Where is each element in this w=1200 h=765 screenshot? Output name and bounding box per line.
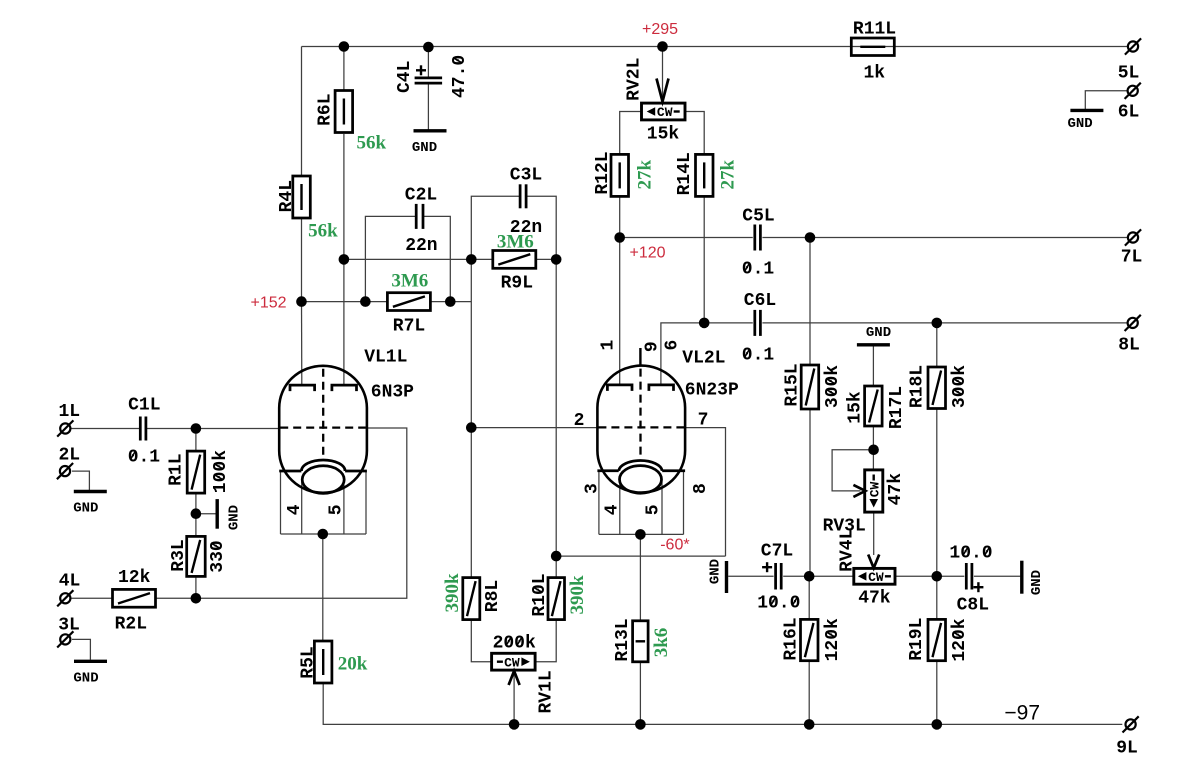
svg-text:2L: 2L xyxy=(58,446,80,466)
svg-text:0.1: 0.1 xyxy=(742,346,775,366)
svg-text:120k: 120k xyxy=(823,618,843,661)
svg-text:GND: GND xyxy=(1029,570,1045,595)
svg-text:GND: GND xyxy=(73,501,98,517)
svg-text:R17L: R17L xyxy=(887,386,907,429)
svg-text:120k: 120k xyxy=(950,618,970,661)
svg-text:390k: 390k xyxy=(567,575,588,615)
svg-text:4L: 4L xyxy=(59,572,81,592)
svg-text:9: 9 xyxy=(642,341,662,352)
svg-text:R11L: R11L xyxy=(853,20,896,40)
svg-text:CW: CW xyxy=(657,105,673,120)
svg-text:300k: 300k xyxy=(823,365,843,408)
svg-text:0.1: 0.1 xyxy=(128,448,161,468)
svg-text:C3L: C3L xyxy=(510,165,542,185)
svg-text:GND: GND xyxy=(412,140,437,156)
svg-text:VL2L: VL2L xyxy=(682,349,725,369)
svg-text:3L: 3L xyxy=(58,616,80,636)
svg-text:C7L: C7L xyxy=(761,542,793,562)
svg-text:C2L: C2L xyxy=(405,185,437,205)
svg-text:100k: 100k xyxy=(211,450,231,493)
svg-text:9L: 9L xyxy=(1116,739,1138,759)
svg-text:+152: +152 xyxy=(250,295,286,312)
svg-text:6N3P: 6N3P xyxy=(371,383,414,403)
svg-text:+120: +120 xyxy=(629,245,665,262)
svg-text:GND: GND xyxy=(73,671,98,687)
svg-text:1: 1 xyxy=(598,340,618,351)
svg-text:RV4L: RV4L xyxy=(837,529,857,572)
svg-text:8L: 8L xyxy=(1118,336,1140,356)
svg-text:1L: 1L xyxy=(58,402,80,422)
svg-text:R14L: R14L xyxy=(675,152,695,195)
svg-text:22n: 22n xyxy=(405,236,437,256)
svg-text:R5L: R5L xyxy=(299,646,319,678)
svg-text:3M6: 3M6 xyxy=(391,271,428,292)
svg-text:12k: 12k xyxy=(118,568,151,588)
svg-text:GND: GND xyxy=(1067,116,1092,132)
svg-text:4: 4 xyxy=(603,504,623,515)
svg-text:7L: 7L xyxy=(1121,248,1143,268)
svg-text:47k: 47k xyxy=(886,473,906,506)
svg-text:VL1L: VL1L xyxy=(364,348,407,368)
svg-text:C8L: C8L xyxy=(957,596,989,616)
svg-text:CW: CW xyxy=(867,482,882,498)
svg-text:27k: 27k xyxy=(635,159,656,189)
svg-text:CW: CW xyxy=(504,655,520,670)
svg-text:6L: 6L xyxy=(1118,103,1140,123)
svg-text:R1L: R1L xyxy=(167,453,187,485)
svg-text:R10L: R10L xyxy=(530,573,550,616)
svg-text:3: 3 xyxy=(583,483,603,494)
svg-text:4: 4 xyxy=(285,504,305,515)
svg-text:6: 6 xyxy=(663,340,683,351)
svg-text:330: 330 xyxy=(208,540,228,572)
svg-text:R6L: R6L xyxy=(315,93,335,125)
svg-text:C6L: C6L xyxy=(744,291,776,311)
svg-text:RV2L: RV2L xyxy=(625,58,645,101)
svg-text:C5L: C5L xyxy=(742,207,774,227)
svg-text:+295: +295 xyxy=(642,21,678,38)
svg-text:390k: 390k xyxy=(442,573,463,613)
svg-text:R12L: R12L xyxy=(593,151,613,194)
svg-text:3M6: 3M6 xyxy=(497,231,534,252)
svg-text:27k: 27k xyxy=(717,159,738,189)
svg-text:-60*: -60* xyxy=(660,537,689,554)
svg-text:R13L: R13L xyxy=(613,618,633,661)
svg-text:5: 5 xyxy=(643,504,663,515)
svg-text:56k: 56k xyxy=(357,133,387,154)
svg-text:R2L: R2L xyxy=(115,615,147,635)
svg-text:300k: 300k xyxy=(950,365,970,408)
svg-text:CW: CW xyxy=(868,570,884,585)
svg-text:5L: 5L xyxy=(1118,64,1140,84)
svg-text:15k: 15k xyxy=(846,391,866,424)
svg-text:GND: GND xyxy=(866,325,891,341)
svg-text:56k: 56k xyxy=(308,220,338,241)
svg-text:47k: 47k xyxy=(858,589,891,609)
svg-text:R19L: R19L xyxy=(907,618,927,661)
svg-text:1k: 1k xyxy=(863,64,885,84)
svg-text:R18L: R18L xyxy=(908,365,928,408)
svg-text:R8L: R8L xyxy=(483,580,503,612)
svg-text:20k: 20k xyxy=(338,654,368,675)
svg-text:8: 8 xyxy=(691,483,711,494)
svg-text:R15L: R15L xyxy=(783,363,803,406)
svg-text:C4L: C4L xyxy=(395,61,415,93)
svg-text:200k: 200k xyxy=(493,634,536,654)
svg-text:3k6: 3k6 xyxy=(651,628,672,658)
svg-text:R3L: R3L xyxy=(169,539,189,571)
svg-text:R9L: R9L xyxy=(501,274,533,294)
svg-text:5: 5 xyxy=(327,504,347,515)
svg-text:0.1: 0.1 xyxy=(742,260,775,280)
svg-text:15k: 15k xyxy=(647,125,680,145)
svg-text:R4L: R4L xyxy=(277,180,297,212)
svg-text:−97: −97 xyxy=(1004,702,1040,725)
svg-text:2: 2 xyxy=(574,411,585,431)
svg-text:6N23P: 6N23P xyxy=(685,381,739,401)
svg-text:R7L: R7L xyxy=(393,317,425,337)
svg-text:R16L: R16L xyxy=(781,617,801,660)
svg-text:GND: GND xyxy=(707,559,723,584)
svg-text:7: 7 xyxy=(698,411,709,431)
svg-text:GND: GND xyxy=(226,505,242,530)
svg-text:RV1L: RV1L xyxy=(537,670,557,713)
svg-text:C1L: C1L xyxy=(128,396,160,416)
